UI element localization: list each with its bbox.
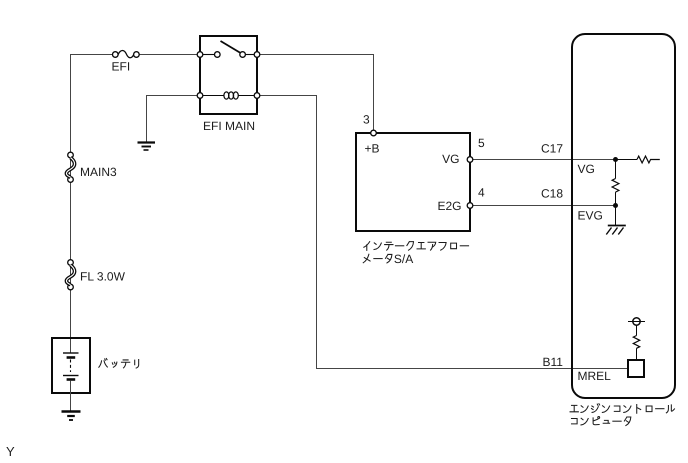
resistor (VG-EVG divider, vertical) xyxy=(612,179,619,193)
label E2G (meter) xyxy=(437,199,461,213)
svg-text:Y: Y xyxy=(6,444,15,459)
label エンジンコントロール xyxy=(570,404,674,414)
label VG (meter) xyxy=(442,152,459,166)
fuse EFI (symbol) xyxy=(113,51,140,58)
svg-text:EVG: EVG xyxy=(578,209,603,223)
label 3 (pin number) xyxy=(363,113,370,127)
pin 5 terminal (VG) xyxy=(467,157,473,163)
label FL 3.0W xyxy=(80,270,126,284)
svg-text:EFI: EFI xyxy=(112,60,131,74)
resistor (VG pull-up, horizontal) xyxy=(637,156,660,163)
wire EVG junction to chassis ground xyxy=(615,206,617,226)
label MAIN3 xyxy=(80,165,117,179)
svg-text:3: 3 xyxy=(363,113,370,127)
wire EFI fuse to EFI MAIN relay xyxy=(139,54,201,56)
air flow meter S/A (box) xyxy=(356,133,470,231)
label MREL (ECU) xyxy=(578,369,612,383)
wire MREL resistor to driver box xyxy=(636,348,638,359)
ground (battery) xyxy=(62,412,81,421)
node EVG junction xyxy=(613,203,618,208)
wire battery to top bus (left vertical) xyxy=(70,55,72,338)
wire E2G: meter pin 4 to ECU C18 and junction xyxy=(473,205,614,207)
svg-text:E2G: E2G xyxy=(437,199,461,213)
label 5 (pin number) xyxy=(478,136,485,150)
svg-text:S/A: S/A xyxy=(394,252,413,266)
MREL driver (box) xyxy=(628,360,644,377)
wire EFI MAIN coil to ECU MREL terminal B11 xyxy=(256,96,628,369)
wire divider resistor to EVG junction xyxy=(615,192,617,205)
label EFI MAIN xyxy=(203,119,255,133)
svg-text:C17: C17 xyxy=(541,142,563,156)
label 4 (pin number) xyxy=(478,186,485,200)
svg-text:EFI MAIN: EFI MAIN xyxy=(203,119,255,133)
relay EFI MAIN (box) xyxy=(200,36,257,114)
wire EFI MAIN switch out to +B of air flow meter xyxy=(256,55,374,131)
svg-text:B11: B11 xyxy=(543,355,564,369)
pin 3 terminal (+B) xyxy=(371,130,377,136)
wire supply to MREL resistor xyxy=(636,325,638,335)
ground (relay coil) xyxy=(138,143,156,151)
battery (box) xyxy=(52,338,90,411)
label VG (ECU) xyxy=(578,162,595,176)
svg-text:5: 5 xyxy=(478,136,485,150)
label Y (page code) xyxy=(6,444,15,459)
label C17 (connector pin) xyxy=(541,142,563,156)
label バッテリ xyxy=(99,359,139,369)
pin 4 terminal (E2G) xyxy=(467,203,473,209)
wire VG: meter pin 5 to ECU C17 and junction xyxy=(473,159,614,161)
label +B xyxy=(365,142,380,156)
label コンピュータ xyxy=(571,417,630,426)
fusible link MAIN3 (symbol) xyxy=(66,152,74,182)
relay coil xyxy=(197,92,260,99)
internal supply terminal above MREL driver xyxy=(628,318,645,325)
label C18 (connector pin) xyxy=(541,187,563,201)
ECU エンジンコントロールコンピュータ (box) xyxy=(572,34,675,398)
label メータS/A xyxy=(363,252,413,266)
resistor (MREL, vertical) xyxy=(633,336,639,349)
node VG junction xyxy=(613,157,618,162)
label インテークエアフロー xyxy=(364,242,469,251)
wire VG junction to pull-up resistor xyxy=(614,159,637,161)
svg-text:VG: VG xyxy=(578,162,595,176)
label B11 (connector pin) xyxy=(543,355,564,369)
svg-text:MREL: MREL xyxy=(578,369,612,383)
wire VG junction down to divider resistor xyxy=(615,160,617,179)
wire top bus corner to EFI fuse xyxy=(70,54,113,56)
label EFI xyxy=(112,60,131,74)
svg-text:FL 3.0W: FL 3.0W xyxy=(80,270,126,284)
svg-text:MAIN3: MAIN3 xyxy=(80,165,117,179)
wire EFI MAIN coil to ground xyxy=(147,96,201,142)
fusible link FL 3.0W (symbol) xyxy=(66,260,74,290)
chassis ground (EVG) xyxy=(606,226,626,235)
relay switch contact (pins and blade) xyxy=(197,41,260,57)
label EVG (ECU) xyxy=(578,209,603,223)
svg-text:+B: +B xyxy=(365,142,380,156)
svg-text:VG: VG xyxy=(442,152,459,166)
svg-text:C18: C18 xyxy=(541,187,563,201)
svg-text:4: 4 xyxy=(478,186,485,200)
